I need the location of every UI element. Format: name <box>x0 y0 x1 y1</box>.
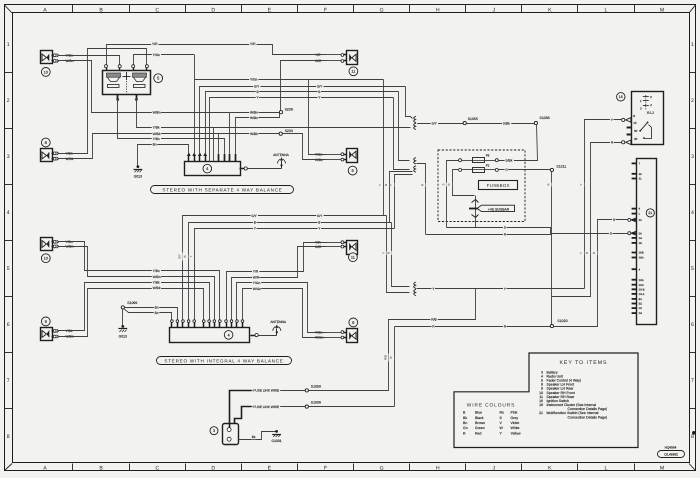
svg-text:49: 49 <box>639 173 642 176</box>
wire S/Bk: splice S1055 to splice S1058 <box>466 123 534 125</box>
svg-text:16: 16 <box>619 95 623 99</box>
svg-text:Y/R: Y/R <box>253 269 259 273</box>
speaker 8 body <box>41 149 53 162</box>
svg-text:W/Gn: W/Gn <box>253 287 262 291</box>
fusebox title box <box>479 181 518 190</box>
svg-text:30: 30 <box>639 219 642 222</box>
svg-text:L: L <box>605 7 608 13</box>
splice S1099 <box>121 306 124 309</box>
svg-text:G013: G013 <box>134 175 142 179</box>
left band tick marks <box>5 72 13 74</box>
wire S/Bk: splice S1058 down to fuse F6 <box>499 125 538 161</box>
svg-text:W/Bn: W/Bn <box>66 59 74 63</box>
fader control unit 5 body <box>103 71 151 95</box>
wire R: connector C2 feed row to S1011 drop <box>426 234 552 236</box>
svg-text:B: B <box>183 255 187 257</box>
svg-text:Bn: Bn <box>463 421 467 425</box>
wire Y/R: fader pin1 to speaker 11 <box>107 45 327 65</box>
svg-text:Y: Y <box>378 184 382 186</box>
wire S/Y: radio pin3 row (bottom) <box>183 216 387 320</box>
key to items / wire colours combined box <box>454 353 638 448</box>
svg-text:30: 30 <box>634 137 638 141</box>
svg-text:W/R: W/R <box>315 59 322 63</box>
speaker 9 body <box>347 149 358 163</box>
svg-text:Blue: Blue <box>475 411 482 415</box>
radio unit 4 body (top system) <box>185 162 241 176</box>
svg-text:B1: B1 <box>639 298 643 301</box>
fuse link wire 1: battery to S1050 <box>230 391 252 428</box>
speaker 9 wire labels Y/Gn/W/Bn <box>327 154 342 156</box>
svg-text:K: K <box>548 466 552 472</box>
speaker 10 pins <box>52 55 54 57</box>
svg-text:Violet: Violet <box>511 421 520 425</box>
multifunction switch item circle 21 <box>646 209 654 217</box>
splice S203 <box>279 132 282 135</box>
splice S1055 <box>463 122 466 125</box>
speaker 9 item circle <box>349 318 358 327</box>
wire W/R: speaker 11 to splice S209 <box>281 61 327 111</box>
wire: S/Y row to connector C3 lower <box>387 216 410 293</box>
svg-text:ANTENNA: ANTENNA <box>273 153 290 157</box>
svg-text:+VE BUSBAR: +VE BUSBAR <box>488 208 510 212</box>
inline connector C2 hooks <box>414 158 416 164</box>
svg-text:)0,1,2: )0,1,2 <box>647 111 655 115</box>
svg-text:S1020: S1020 <box>557 319 567 323</box>
wire R: drop to fuse link row 2 <box>394 327 396 407</box>
right band tick marks <box>689 72 696 74</box>
wire S/Y: connector C1 to splice S1055 <box>417 123 463 125</box>
svg-text:C/L49962: C/L49962 <box>664 453 678 457</box>
svg-text:J: J <box>493 7 496 13</box>
radio unit 4 supply pins (top) <box>218 154 220 162</box>
wire W/Bk: radio pin5 drop <box>218 134 220 154</box>
wire Y/R: radio to speaker 11 (bottom) <box>227 243 327 320</box>
inline connector C1 upper hooks <box>414 116 416 122</box>
wire Bn: splice S1099 to radio pin2 <box>125 308 178 320</box>
svg-text:F: F <box>324 7 327 13</box>
svg-text:31: 31 <box>639 178 642 181</box>
svg-text:F6: F6 <box>486 154 490 158</box>
speaker 10 body <box>41 51 53 64</box>
svg-text:7: 7 <box>691 378 694 384</box>
radio unit 4 antenna pin (top) <box>240 168 245 170</box>
svg-text:Bn: Bn <box>155 311 159 315</box>
svg-text:Connection Details Page): Connection Details Page) <box>568 415 608 419</box>
caption: stereo with integral 4 way balance <box>157 357 292 365</box>
svg-text:Y/Bk: Y/Bk <box>153 126 160 130</box>
svg-text:S203: S203 <box>285 129 293 133</box>
svg-text:M: M <box>660 466 664 472</box>
wire B: drop to inline connector C2 <box>399 92 410 161</box>
wire R: S1020 tee to ignition switch R pin <box>552 143 622 297</box>
svg-text:FUSE LINK WIRE: FUSE LINK WIRE <box>253 405 279 409</box>
wire Y: radio top entry to mid column <box>210 98 394 162</box>
wire Y: radio pin5 row (bottom) <box>195 229 395 320</box>
svg-text:S6A: S6A <box>639 257 644 260</box>
svg-text:B: B <box>384 184 388 186</box>
fader control 5 internals <box>107 73 121 77</box>
wire R: connector C2 output down to relay row <box>417 164 426 235</box>
svg-text:S3A: S3A <box>639 279 644 282</box>
wire Y/Gn: vertical into radio pin2 with tee <box>194 55 196 155</box>
speaker 11 wire labels Y/R/W/R <box>327 54 342 56</box>
svg-text:S/Y: S/Y <box>317 84 323 88</box>
wire B: radio pin4 row (bottom) <box>189 223 392 320</box>
fusebox feed wire to busbar <box>453 170 475 196</box>
svg-text:Black: Black <box>475 416 484 420</box>
splice S1050 <box>305 389 308 392</box>
splice S1020 <box>550 325 553 328</box>
svg-text:FUSE LINK WIRE: FUSE LINK WIRE <box>253 389 279 393</box>
svg-text:E: E <box>268 7 272 13</box>
wire Y/Gn: long drop between systems <box>383 79 385 216</box>
ground G013 (top system) <box>137 165 140 168</box>
svg-text:Grey: Grey <box>511 416 519 420</box>
svg-text:S1011: S1011 <box>556 164 566 168</box>
wire Y: riser to ignition switch <box>585 120 622 289</box>
wire W/Bn: splice S203 to speaker 9 <box>283 134 327 160</box>
svg-text:4: 4 <box>691 210 694 216</box>
svg-text:K: K <box>548 7 552 13</box>
svg-text:G013: G013 <box>119 334 127 338</box>
ignition switch contacts <box>639 130 641 132</box>
svg-text:Brown: Brown <box>475 421 485 425</box>
ignition switch 16 body <box>632 92 664 145</box>
svg-text:B: B <box>99 466 103 472</box>
border corner diagonals <box>5 5 13 13</box>
speaker 11 body <box>347 241 358 255</box>
svg-text:Y/Bn: Y/Bn <box>153 269 160 273</box>
multifunction switch 21 body <box>637 159 657 325</box>
wire Y/Bk: fader output to radio and connector <box>137 99 411 128</box>
wire Y: connector C3 to ignition switch riser <box>417 288 585 290</box>
svg-text:W/Bn: W/Bn <box>153 110 161 114</box>
wire W/Bn: radio pin7 drop <box>229 112 231 153</box>
svg-text:S3-2: S3-2 <box>639 293 645 296</box>
svg-text:10: 10 <box>44 70 48 74</box>
radio unit 4 body (bottom system) <box>170 328 250 343</box>
speaker 10 body <box>41 238 53 251</box>
svg-text:Gn: Gn <box>463 426 468 430</box>
radio unit 4 item circle (top) <box>203 164 212 173</box>
svg-text:Y/Bk: Y/Bk <box>66 329 73 333</box>
wire Y: drop to inline connector C2 <box>394 98 410 170</box>
svg-text:R/B: R/B <box>431 318 437 322</box>
svg-text:S4: S4 <box>639 237 643 240</box>
svg-text:H: H <box>436 7 440 13</box>
svg-text:KEY TO ITEMS: KEY TO ITEMS <box>559 360 607 366</box>
multifunction switch pin 58 connector <box>628 232 631 235</box>
svg-text:Y/Bn: Y/Bn <box>153 137 160 141</box>
speaker 10 pins <box>52 241 54 243</box>
speaker 9 item circle <box>348 166 357 175</box>
svg-text:S/Bk: S/Bk <box>505 158 512 162</box>
svg-text:W/Bn: W/Bn <box>250 116 258 120</box>
fader control 5 bottom output pins <box>117 94 119 99</box>
speaker 11 pins <box>344 54 347 56</box>
svg-text:58: 58 <box>639 232 642 235</box>
speaker 8 item circle <box>41 138 50 147</box>
svg-text:A: A <box>43 466 47 472</box>
wire S: fusebox to multifunction switch <box>447 228 628 234</box>
svg-text:F2: F2 <box>486 163 490 167</box>
wire W/Bn 2nd: radio pin8 to splice S209 <box>236 114 280 154</box>
svg-text:Y/Gn: Y/Gn <box>253 281 261 285</box>
fuse F2 <box>459 168 462 171</box>
+VE busbar symbol <box>475 196 477 228</box>
wire: S1050 to R/B riser <box>308 390 389 392</box>
svg-text:H: H <box>436 466 440 472</box>
svg-text:D: D <box>211 466 215 472</box>
svg-text:S1055: S1055 <box>468 117 478 121</box>
svg-text:Bk: Bk <box>252 435 256 439</box>
fader control item circle 5 <box>154 74 163 83</box>
svg-text:S/Y: S/Y <box>432 121 438 125</box>
svg-text:S1058: S1058 <box>540 116 550 120</box>
splice S1058 <box>534 122 537 125</box>
radio unit 4 antenna pin (bottom) <box>250 335 255 337</box>
svg-text:Y/R: Y/R <box>315 53 321 57</box>
speaker 10 wire labels Y/Bn/W/Bn <box>59 241 64 243</box>
svg-text:Y/R: Y/R <box>152 42 158 46</box>
svg-text:S209: S209 <box>285 107 293 111</box>
svg-text:STEREO WITH SEPARATE 4 WAY BAL: STEREO WITH SEPARATE 4 WAY BALANCE <box>162 188 282 193</box>
ground G1001 <box>275 430 278 433</box>
speaker 9 pins <box>344 332 347 334</box>
speaker 10 item circle <box>41 68 50 77</box>
svg-text:B: B <box>633 114 635 118</box>
antenna symbol (bottom system) <box>258 335 277 337</box>
svg-text:B2: B2 <box>639 303 643 306</box>
splice S1011 <box>498 169 550 171</box>
svg-text:2: 2 <box>691 98 694 104</box>
ground G013 (bottom system) <box>121 325 124 328</box>
svg-text:S1006: S1006 <box>311 401 321 405</box>
svg-text:2: 2 <box>7 98 10 104</box>
svg-text:Y: Y <box>389 184 393 186</box>
svg-text:M: M <box>660 7 664 13</box>
svg-text:W/Bk: W/Bk <box>153 132 161 136</box>
fusebox feed wire S <box>447 161 459 228</box>
speaker 9 pins <box>52 330 54 332</box>
svg-text:Rs: Rs <box>500 411 505 415</box>
svg-text:8: 8 <box>7 434 10 440</box>
speaker 11 item circle <box>349 253 358 262</box>
svg-text:S3C: S3C <box>639 284 644 287</box>
svg-text:Red: Red <box>475 431 481 435</box>
speaker 11 pins <box>344 242 347 244</box>
speaker 9 body <box>41 328 53 341</box>
caption: stereo with separate 4 way balance <box>151 186 294 194</box>
svg-text:W/Bn: W/Bn <box>250 110 258 114</box>
wire: splice S1099 to ground G013 <box>122 309 124 325</box>
svg-text:7: 7 <box>7 378 10 384</box>
svg-text:L: L <box>605 466 608 472</box>
inline connector C3 hooks (bottom) <box>414 282 416 288</box>
speaker 8 wire labels Y/Bk/W/Bk <box>59 153 64 155</box>
svg-text:8: 8 <box>691 434 694 440</box>
rotated labels on bottom radio risers <box>179 252 183 260</box>
speaker 11 item circle <box>349 67 358 76</box>
wire Bn: radio pin1 to ground G013 <box>138 145 189 166</box>
svg-text:S3-B: S3-B <box>639 288 645 291</box>
speaker 9 item circle <box>41 317 50 326</box>
wire R/B: drop from Y row to fuse link row <box>389 289 476 391</box>
svg-text:W/Bk: W/Bk <box>250 132 258 136</box>
svg-text:Y: Y <box>189 255 193 257</box>
svg-text:S/Y: S/Y <box>251 214 257 218</box>
wire Y/Bk: radio top entry drop <box>213 127 215 161</box>
fuse link wire 2: battery to S1006 <box>235 407 252 424</box>
svg-text:Pink: Pink <box>511 411 518 415</box>
svg-text:S1050: S1050 <box>311 384 321 388</box>
svg-text:STEREO WITH INTEGRAL 4 WAY BAL: STEREO WITH INTEGRAL 4 WAY BALANCE <box>164 359 283 364</box>
svg-text:Y: Y <box>579 252 583 254</box>
wire Y/Bn: fader output to radio pin6 <box>118 99 225 154</box>
svg-text:1: 1 <box>691 42 694 48</box>
svg-text:E: E <box>268 466 272 472</box>
wire Y/Gn: drop to speaker 9 <box>309 80 327 155</box>
wire Y/Gn: row toward speaker 9 and mid column <box>194 79 383 81</box>
svg-text:S1099: S1099 <box>127 301 137 305</box>
sheet punch-hole dot <box>692 431 696 435</box>
svg-text:Y/Bk: Y/Bk <box>153 280 160 284</box>
svg-text:3: 3 <box>7 154 10 160</box>
svg-text:11: 11 <box>351 256 355 260</box>
wire W/Gn: radio to speaker 9 (bottom) <box>243 289 327 338</box>
svg-text:19: 19 <box>539 403 543 407</box>
svg-text:50: 50 <box>634 129 638 133</box>
svg-text:1: 1 <box>7 42 10 48</box>
svg-text:S/Y: S/Y <box>178 254 182 259</box>
wire Y/Gn: speaker 10 to fader pin2 <box>59 56 120 65</box>
wire Y/Gn: fader pin3 riser <box>134 55 195 65</box>
wire: B row to connector C3 upper <box>392 223 410 287</box>
ignition switch feed pin (R) <box>622 141 625 144</box>
wire S/Y: drop to inline connector C1 <box>406 87 413 119</box>
svg-text:Y: Y <box>381 252 385 254</box>
wire R: row to splice S1020 <box>395 326 551 328</box>
speaker 9 wire labels Y/Bk/W/Bk <box>59 330 64 332</box>
splice S1006 <box>305 405 308 408</box>
speaker 11 body <box>347 51 358 65</box>
fuse F6 <box>459 159 462 162</box>
wire W/Bn: row to splice S209 <box>230 112 280 114</box>
wire Bn: splice S1099 to radio pin1 <box>124 309 172 320</box>
svg-text:B: B <box>387 252 391 254</box>
svg-text:5: 5 <box>7 266 10 272</box>
speaker 9 body <box>347 329 358 343</box>
svg-text:21: 21 <box>539 411 543 415</box>
drawing reference stamp <box>658 451 685 458</box>
svg-text:D: D <box>211 7 215 13</box>
svg-text:6: 6 <box>7 322 10 328</box>
radio unit 4 pins (bottom) <box>171 322 173 327</box>
wire W/Bk: speaker 9 LH rear to radio (bottom) <box>59 289 204 337</box>
svg-text:Bn: Bn <box>155 306 159 310</box>
speaker 9 wire labels Y/Gn/W/Gn <box>327 332 342 334</box>
ignition switch position ladder <box>645 95 647 110</box>
battery 3 body <box>223 424 239 445</box>
svg-text:5: 5 <box>691 266 694 272</box>
svg-text:21: 21 <box>648 211 652 215</box>
svg-text:W/R: W/R <box>253 275 260 279</box>
wire W/Bn: speaker 10 to radio pin (bottom) <box>59 247 215 320</box>
svg-text:B: B <box>99 7 103 13</box>
wire: connector C2 output to Y row riser <box>395 175 413 229</box>
svg-text:G: G <box>380 466 384 472</box>
svg-text:11: 11 <box>351 70 355 74</box>
svg-text:Y/Gn: Y/Gn <box>153 53 161 57</box>
svg-text:J: J <box>493 466 496 472</box>
ignition switch stub terminals <box>627 127 632 129</box>
svg-text:S/Y: S/Y <box>317 214 323 218</box>
svg-text:G: G <box>380 7 384 13</box>
svg-text:3: 3 <box>691 154 694 160</box>
battery item circle 3 <box>210 427 218 435</box>
wire Y/Bk: speaker 8 riser to fader pin4 <box>59 49 147 154</box>
wire B: radio pin4 to mid column <box>206 92 399 155</box>
speaker 10 wire labels Y/Gn/W/Bn <box>59 55 64 57</box>
svg-text:Y: Y <box>579 183 583 185</box>
svg-text:Yellow: Yellow <box>511 431 521 435</box>
svg-text:15: 15 <box>633 121 637 125</box>
top band tick marks <box>72 5 74 13</box>
fusebox dashed boundary <box>438 150 525 222</box>
svg-text:S/Bk: S/Bk <box>503 121 510 125</box>
svg-text:W/Bn: W/Bn <box>153 275 161 279</box>
svg-text:FUSEBOX: FUSEBOX <box>487 183 510 188</box>
svg-text:Bn: Bn <box>153 143 157 147</box>
rotated labels on connector C3 feeds <box>382 251 386 255</box>
svg-text:Y/Gn: Y/Gn <box>250 77 258 81</box>
wire W/Bn: speaker 10 down to row <box>59 61 230 113</box>
bottom band tick marks <box>72 464 74 471</box>
radio unit 4 item circle (bottom) <box>224 331 233 340</box>
fader control 5 top pins <box>106 68 108 70</box>
svg-text:4: 4 <box>7 210 10 216</box>
svg-text:10: 10 <box>44 257 48 261</box>
splice S209 <box>279 111 282 114</box>
antenna symbol (top system) <box>247 168 281 170</box>
svg-text:Y/R: Y/R <box>250 42 256 46</box>
svg-text:White: White <box>511 426 520 430</box>
svg-text:S4: S4 <box>639 312 643 315</box>
wire W/R: radio to speaker 11 (bottom) <box>232 247 327 320</box>
svg-text:6: 6 <box>691 322 694 328</box>
wire Y/Gn: radio to speaker 9 (bottom) <box>237 283 327 333</box>
svg-text:Bk: Bk <box>463 416 467 420</box>
ignition switch feed pin (Y) <box>622 118 625 121</box>
svg-text:3: 3 <box>213 429 215 433</box>
svg-text:W/Bk: W/Bk <box>153 286 161 290</box>
svg-text:S6B: S6B <box>639 252 644 255</box>
wire: connector C2 output to B row riser <box>390 172 413 223</box>
mid column rotated wire labels <box>379 183 383 187</box>
wire Y/Bn: speaker 10 to radio pin (bottom) <box>59 242 220 320</box>
radio unit 4 input pins with arrowheads (top) <box>188 156 190 162</box>
svg-text:F: F <box>324 466 327 472</box>
speaker 9 pins <box>344 154 347 156</box>
wire S/Y: radio pin3 to mid column <box>200 87 406 155</box>
speaker 8 pins <box>52 153 54 155</box>
svg-text:WIRE COLOURS: WIRE COLOURS <box>467 402 515 408</box>
svg-text:ANTENNA: ANTENNA <box>270 320 287 324</box>
svg-text:A: A <box>43 7 47 13</box>
svg-text:S3: S3 <box>639 307 643 310</box>
wire Y/Bk: speaker 9 LH rear to radio (bottom) <box>59 283 210 331</box>
svg-text:S5: S5 <box>639 242 643 245</box>
